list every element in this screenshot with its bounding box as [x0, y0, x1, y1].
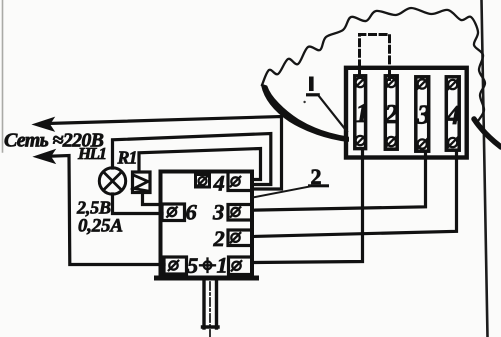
label 3 (strip): [416, 100, 431, 130]
label 2 (block): [213, 226, 225, 251]
wire: lamp bottom to terminal 6: [113, 194, 163, 214]
callout 1 leader: [319, 96, 348, 132]
lamp HL1: [99, 168, 125, 194]
label 1 (block): [217, 253, 228, 278]
svg-text:4: 4: [213, 171, 225, 196]
arrowhead second mains: [34, 150, 55, 164]
svg-text:3: 3: [212, 200, 224, 225]
label 2,5В: [76, 198, 111, 218]
panel strip 3: [416, 77, 429, 151]
panel strip 2: [385, 76, 397, 149]
panel strip 4: [446, 77, 459, 150]
terminal block U2 body: [157, 172, 257, 279]
wire: net B (lamp HL1 top to terminal 4): [113, 134, 271, 185]
svg-text:3: 3: [416, 100, 431, 130]
speck: [303, 101, 305, 103]
wire: panel strip 4 to block terminal 2: [252, 151, 457, 237]
wire: panel strip 3 to block terminal 3: [252, 152, 426, 210]
label 6 (block): [186, 200, 198, 225]
torn paper outline (thin jagged edge): [262, 8, 485, 121]
svg-text:2: 2: [213, 226, 225, 251]
svg-text:1: 1: [217, 253, 228, 278]
resistor R1: [133, 172, 151, 193]
wire: resistor bottom to terminal 6: [143, 193, 163, 205]
callout 2 leader: [253, 187, 310, 198]
svg-text:0,25А: 0,25А: [78, 216, 123, 237]
label 4 (block): [213, 171, 225, 196]
label 5 (block): [187, 253, 198, 278]
block terminal 3 right box: [228, 205, 252, 221]
mounting cross node: [200, 259, 215, 273]
wire: net A (top mains wire, arrow to terminal 4): [48, 117, 282, 190]
svg-text:Сеть ≈220В: Сеть ≈220В: [4, 130, 104, 152]
label HL1: [77, 144, 107, 163]
callout 1 digit and underline: [306, 77, 320, 97]
block terminal 5 left box: [164, 257, 187, 274]
label Сеть 220В: [4, 130, 104, 152]
torn paper thick bottom-right arc: [474, 119, 501, 147]
block terminal 4 top (inner): [196, 175, 210, 188]
block terminal 2 right box: [228, 230, 252, 246]
label 1 (strip): [356, 98, 370, 128]
right page-edge line: [482, 0, 488, 337]
svg-text:2: 2: [384, 99, 399, 129]
block terminal 4 right box: [228, 172, 252, 191]
wire: net C (resistor R1 top to terminal 4): [139, 149, 261, 180]
label R1: [117, 148, 138, 168]
block terminal 1 right box: [229, 257, 253, 275]
label 3 (block): [212, 200, 224, 225]
svg-text:R1: R1: [117, 148, 138, 168]
svg-text:6: 6: [186, 200, 198, 225]
label 4 (strip): [446, 100, 461, 130]
svg-text:2,5В: 2,5В: [76, 198, 111, 218]
dashed jumper box over strips 1-2: [360, 35, 390, 80]
panel strip 1: [355, 76, 366, 149]
label 2 (strip): [384, 99, 399, 129]
svg-text:5: 5: [187, 253, 198, 278]
callout 2 digit and underline: [308, 164, 329, 189]
svg-text:4: 4: [446, 100, 461, 130]
left page-edge line: [2, 0, 4, 152]
shaft centerline: [209, 282, 211, 337]
wire: panel strip 1 to block terminal 1: [252, 150, 363, 263]
label 0,25А: [78, 216, 123, 237]
shaft below block: [203, 279, 219, 328]
lamp panel U1 body: [346, 68, 467, 158]
wire: net D (second mains wire, arrow down to terminal 5): [46, 156, 164, 265]
svg-text:1: 1: [356, 98, 370, 128]
arrowhead top mains: [33, 118, 54, 132]
block terminal 6 left box: [162, 204, 185, 221]
torn paper thick bottom-left crescent: [262, 85, 348, 141]
